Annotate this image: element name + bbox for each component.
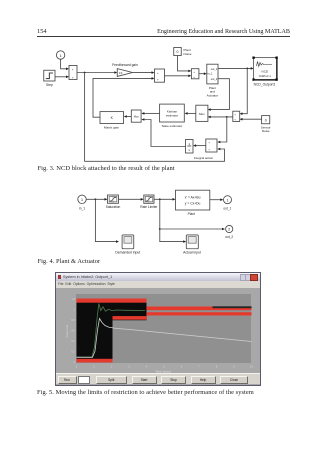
svg-text:estimator: estimator <box>166 113 178 117</box>
svg-text:x' = Ax+Bu: x' = Ax+Bu <box>185 196 201 200</box>
button Run <box>58 376 77 384</box>
button Close <box>220 376 248 384</box>
svg-text:Rate Limiter: Rate Limiter <box>140 205 158 209</box>
wire Rate Limiter to Plant <box>154 198 173 200</box>
sum block Sum4 <box>233 111 240 121</box>
block Saturation <box>108 195 119 203</box>
svg-text:0.8: 0.8 <box>71 318 75 322</box>
svg-text:FF: FF <box>119 71 123 75</box>
wire Kalman estimator to Mux1 <box>144 112 160 114</box>
svg-text:NCD_Outport1: NCD_Outport1 <box>254 83 276 87</box>
svg-text:+: + <box>234 113 236 117</box>
svg-text:in_1: in_1 <box>79 206 85 210</box>
svg-text:1: 1 <box>73 307 75 311</box>
x axis tick labels <box>75 364 253 368</box>
svg-text:1: 1 <box>59 53 62 58</box>
sum block Sum1 <box>69 66 77 80</box>
wire gain to Sum2 <box>133 72 152 74</box>
svg-text:10: 10 <box>250 364 253 368</box>
caption figure 4 <box>38 258 101 265</box>
svg-text:+: + <box>234 118 236 122</box>
svg-text:1: 1 <box>226 199 228 203</box>
svg-text:Mux: Mux <box>134 115 140 119</box>
svg-text:K: K <box>111 116 114 120</box>
svg-text:+: + <box>157 71 159 75</box>
block Step <box>44 70 55 81</box>
svg-text:out_2: out_2 <box>211 77 218 81</box>
svg-text:3: 3 <box>128 364 130 368</box>
wire 1/s output to Mux1 lower input <box>144 120 185 147</box>
wire in_1 to Saturation <box>86 198 105 200</box>
svg-text:Response: Response <box>65 324 69 337</box>
wire Step to Sum1 <box>55 76 66 78</box>
svg-text:y = Cx+Du: y = Cx+Du <box>185 201 201 205</box>
svg-text:Actuator: Actuator <box>207 93 219 97</box>
wire out_1 feedback down to Sum4 <box>242 68 247 113</box>
caption figure 5 <box>37 389 254 396</box>
svg-text:out_1: out_1 <box>211 67 218 71</box>
black feasible region (L-shape) <box>76 298 146 362</box>
red constraint bar upper-right <box>146 306 251 310</box>
wire Sensor Noise to Sum4 <box>242 118 261 120</box>
block NCD Outport (selected with handles) <box>254 58 277 80</box>
wire Sum5 to 1/s <box>196 145 206 147</box>
red constraint bar upper-left <box>76 298 146 302</box>
svg-text:6: 6 <box>180 364 182 368</box>
y axis tick labels <box>71 297 75 364</box>
svg-text:4: 4 <box>145 364 147 368</box>
svg-text:7: 7 <box>198 364 200 368</box>
wire Sum3 to Plant and Actuator <box>199 73 204 75</box>
block Kalman estimator <box>160 104 185 122</box>
svg-text:Noise: Noise <box>262 129 270 133</box>
button strip <box>56 373 260 384</box>
wire out_2 down to Mux2 <box>210 79 229 110</box>
input port circle in_1 <box>78 195 86 203</box>
wire from port 1 down to Sum1 <box>61 59 67 69</box>
block Plant Noise <box>174 48 182 56</box>
svg-text:State estimator: State estimator <box>162 124 183 128</box>
svg-text:2: 2 <box>228 228 230 232</box>
block integral action 1/s <box>186 140 194 154</box>
svg-text:Mux: Mux <box>199 112 205 116</box>
svg-text:out_1: out_1 <box>223 206 231 210</box>
svg-text:+: + <box>208 148 210 152</box>
svg-text:0: 0 <box>75 364 77 368</box>
svg-text:0: 0 <box>177 50 179 54</box>
button Split <box>96 376 128 384</box>
svg-text:2: 2 <box>110 364 112 368</box>
block Rate Limiter <box>144 195 154 203</box>
page header: running title <box>0 29 290 35</box>
svg-text:Step: Step <box>46 83 53 87</box>
page header rule <box>37 35 290 38</box>
page header: page number <box>37 28 47 35</box>
white response curve <box>76 318 251 357</box>
svg-text:Noise: Noise <box>184 52 192 56</box>
svg-text:0.2: 0.2 <box>71 349 75 353</box>
window title bar <box>56 273 260 281</box>
wire Plant to out_1 <box>210 199 221 201</box>
mux block Mux1 <box>131 110 141 122</box>
svg-text:0: 0 <box>265 119 267 123</box>
svg-text:Matrix gain: Matrix gain <box>104 125 119 129</box>
svg-text:+: + <box>72 67 74 71</box>
menu bar <box>56 281 260 288</box>
edit box <box>78 376 90 384</box>
svg-text:out_2: out_2 <box>225 235 233 239</box>
svg-text:9: 9 <box>233 364 235 368</box>
scope block Actual input <box>186 235 198 249</box>
svg-text:0: 0 <box>73 360 75 364</box>
svg-text:1: 1 <box>81 197 84 202</box>
svg-text:Demanded input: Demanded input <box>115 250 140 254</box>
window buttons <box>240 274 246 281</box>
input port circle 1 <box>56 51 64 59</box>
mux block Mux2 <box>196 105 208 121</box>
svg-text:5: 5 <box>163 364 165 368</box>
wire Sum2 to Sum3 <box>165 75 189 77</box>
red constraint bar step <box>112 316 147 320</box>
green response curve <box>76 303 145 357</box>
button Help <box>191 376 216 384</box>
wire Sum4 to Mux2 and branch to integral sum <box>210 116 232 118</box>
svg-text:Actual input: Actual input <box>183 250 201 254</box>
plot graphics <box>56 273 262 386</box>
svg-text:0.6: 0.6 <box>71 328 75 332</box>
wire branch down to out_2 and Actual input scope <box>160 199 184 241</box>
svg-text:+: + <box>72 75 74 79</box>
svg-text:+: + <box>193 70 195 74</box>
output port circle out_2 <box>226 225 233 232</box>
svg-text:+: + <box>208 141 210 145</box>
svg-text:NCD: NCD <box>262 70 269 74</box>
caption figure 3 <box>38 165 175 172</box>
svg-text:Feedforward gain: Feedforward gain <box>112 63 138 67</box>
wire out_1 to NCD block <box>218 67 251 69</box>
svg-text:1: 1 <box>188 142 190 146</box>
svg-text:8: 8 <box>215 364 217 368</box>
wire branch down to Demanded input scope <box>95 199 116 241</box>
svg-text:Saturation: Saturation <box>106 205 121 209</box>
dark drag segment on upper-right bar <box>212 306 251 308</box>
output port circle out_1 <box>224 196 232 204</box>
svg-text:in_1: in_1 <box>208 72 213 76</box>
wire Mux2 to Kalman estimator <box>187 112 196 114</box>
wire feedback from Matrix gain K up into Sum2 <box>93 78 152 117</box>
svg-text:1: 1 <box>93 364 95 368</box>
wire Plant Noise to Sum3 <box>178 56 189 71</box>
wire Sum1 to Feedforward gain <box>77 72 115 74</box>
block Plant (state space) <box>176 190 210 210</box>
svg-text:Plant: Plant <box>188 212 195 216</box>
scope block Demanded input <box>122 235 134 249</box>
button Stop <box>161 376 186 384</box>
subsystem block Plant and Actuator <box>207 64 218 84</box>
wire reference branch down and to integral sum <box>85 73 225 162</box>
svg-text:1.2: 1.2 <box>71 297 75 301</box>
svg-text:s: s <box>188 148 190 152</box>
sum block Sum3 <box>191 69 199 79</box>
wire Mux1 to Matrix gain <box>127 116 132 118</box>
gain block Matrix gain K <box>100 112 124 124</box>
svg-text:+: + <box>157 78 159 82</box>
block Sensor Noise <box>262 116 270 124</box>
sum block Sum2 <box>155 69 165 82</box>
svg-text:Integral action: Integral action <box>194 156 214 160</box>
button Start <box>132 376 157 384</box>
red constraint bar lower-right <box>146 312 251 315</box>
axes area <box>76 294 252 363</box>
svg-text:OutPort 1: OutPort 1 <box>259 74 271 78</box>
red constraint bar bottom-left <box>76 358 112 362</box>
sum block integral Sum5 <box>206 139 217 152</box>
wire Saturation to Rate Limiter <box>119 198 142 200</box>
svg-text:0.4: 0.4 <box>71 339 75 343</box>
